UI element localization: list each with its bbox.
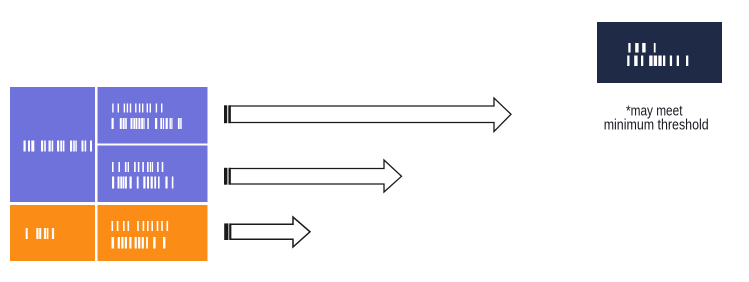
redacted label bars: navy box line 1 <box>628 43 655 53</box>
arrow 3: body <box>231 217 310 247</box>
arrow 2: body <box>230 160 401 192</box>
arrow 2 (medium): tail thick stripe <box>224 168 227 185</box>
redacted label bars: right purple lower cell, line 1 (thin) <box>112 162 163 172</box>
quadrant cell: left purple (tall) <box>10 87 95 202</box>
legend box: dark navy <box>597 22 722 83</box>
quadrant cell: right purple lower <box>98 146 208 203</box>
arrow 2: tail second stripe <box>229 168 231 185</box>
redacted label bars: right purple upper cell, line 2 (thick) <box>112 118 182 129</box>
arrow 1: tail second stripe <box>228 105 231 123</box>
arrow 1 (long): tail thick stripe <box>224 105 227 123</box>
redacted label bars: right purple upper cell, line 1 (thin) <box>112 104 162 113</box>
redacted label bars: navy box line 2 <box>627 56 688 67</box>
arrow 3 (short): tail thick stripe <box>224 223 228 240</box>
quadrant cell: right purple upper <box>98 87 208 144</box>
redacted label bars: left purple cell, single line <box>24 141 93 152</box>
quadrant cell: left orange <box>10 205 95 261</box>
redacted label bars: right orange cell, line 1 (thin) <box>112 221 169 231</box>
redacted label bars: left orange cell, single short line <box>26 228 54 239</box>
arrow 3: tail second stripe <box>229 223 231 240</box>
svg-text:minimum threshold: minimum threshold <box>604 117 709 134</box>
quadrant cell: right orange <box>98 205 208 261</box>
redacted label bars: right purple lower cell, line 2 (thick) <box>112 177 173 189</box>
redacted label bars: right orange cell, line 2 (thick) <box>112 237 166 249</box>
arrow 1: body <box>230 98 511 132</box>
